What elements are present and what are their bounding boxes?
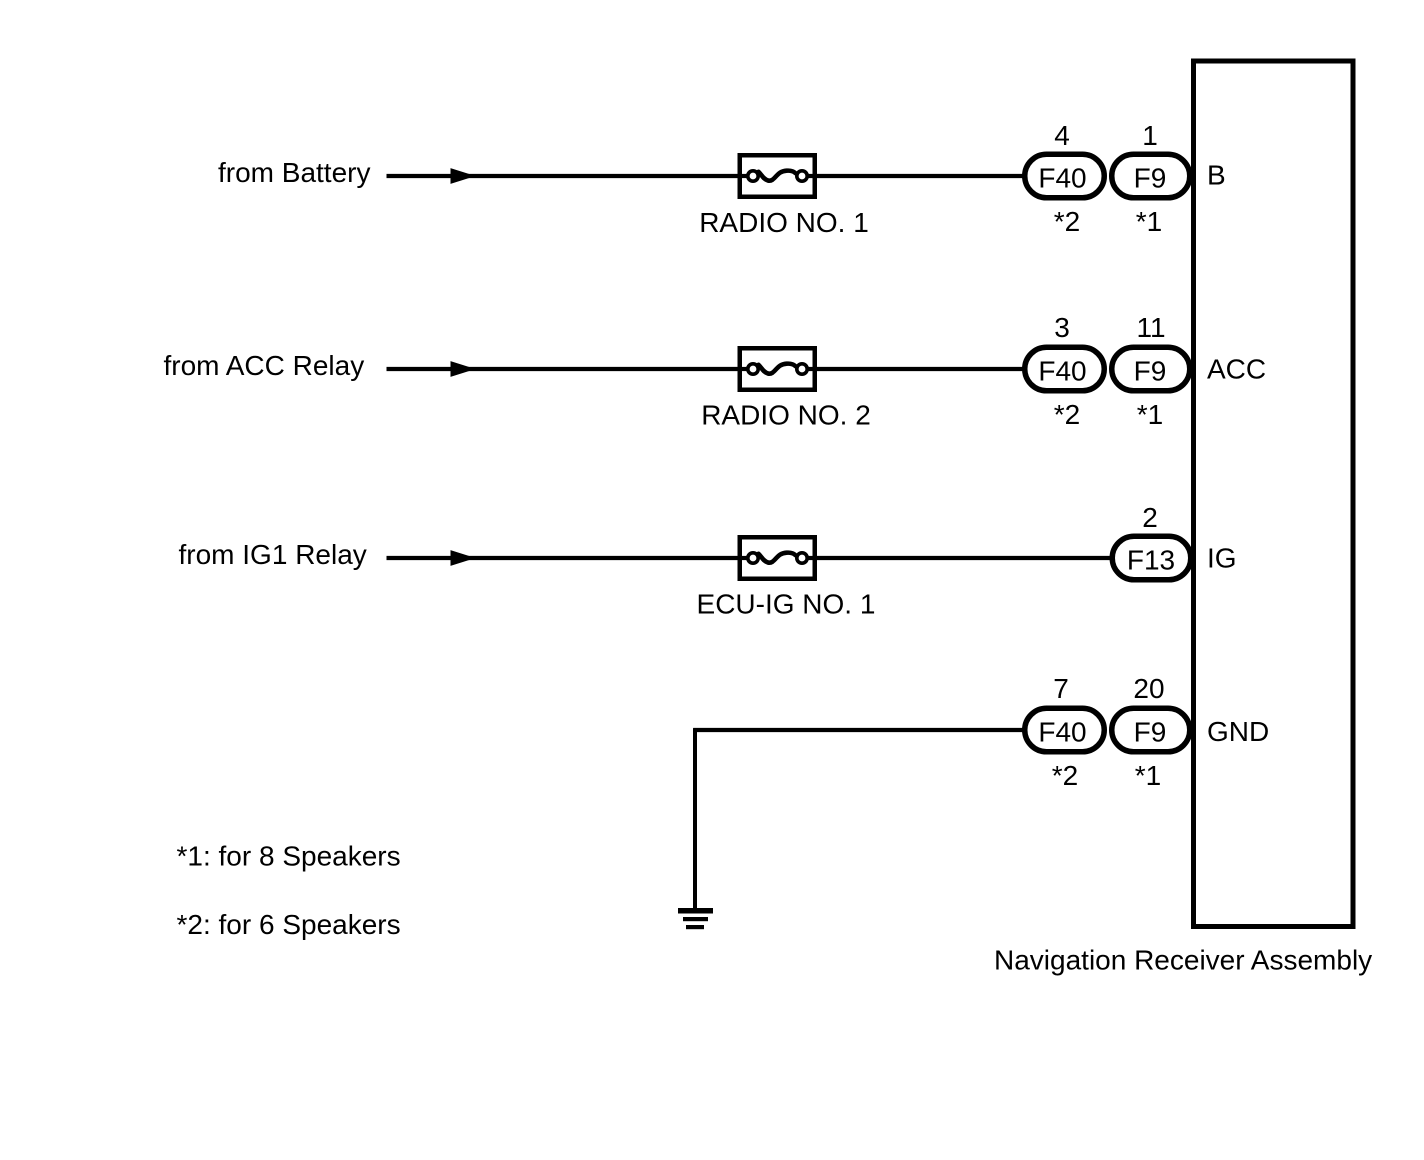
svg-text:F40: F40 [1038, 716, 1086, 747]
fuse ECU-IG NO. 1 [740, 537, 815, 579]
connector box: Navigation Receiver Assembly [1194, 61, 1354, 927]
connector pin F40 (row ACC) [1025, 347, 1105, 391]
svg-text:1: 1 [1142, 120, 1158, 151]
svg-text:11: 11 [1136, 312, 1165, 343]
svg-text:RADIO NO. 1: RADIO NO. 1 [699, 207, 869, 238]
svg-text:F9: F9 [1134, 162, 1167, 193]
svg-text:F13: F13 [1127, 544, 1175, 575]
svg-text:*1: *1 [1136, 206, 1162, 237]
svg-text:F40: F40 [1038, 355, 1086, 386]
connector pin F13 (row IG) [1112, 536, 1191, 580]
svg-text:4: 4 [1054, 120, 1070, 151]
arrowhead: IG1 feed [451, 550, 476, 566]
svg-text:*2: for 6 Speakers: *2: for 6 Speakers [177, 909, 401, 940]
fuse RADIO NO. 1 [740, 155, 815, 197]
connector pin F9 (row B) [1112, 154, 1190, 198]
svg-text:7: 7 [1053, 673, 1069, 704]
svg-text:RADIO NO. 2: RADIO NO. 2 [701, 400, 871, 431]
arrowhead: ACC feed [451, 361, 476, 377]
svg-text:from Battery: from Battery [218, 157, 370, 188]
connector pin F40 (row B) [1025, 154, 1105, 198]
svg-text:F9: F9 [1134, 355, 1167, 386]
svg-text:Navigation Receiver Assembly: Navigation Receiver Assembly [994, 945, 1372, 976]
wire: fuse ECU-IG NO. 1 to connector F13 [804, 556, 1112, 560]
ground symbol [678, 908, 713, 929]
wire: ground riser (vertical) [693, 728, 697, 908]
fuse RADIO NO. 2 [740, 348, 815, 390]
arrowhead: battery feed [451, 168, 476, 184]
connector pin F9 (row GND) [1112, 708, 1190, 752]
svg-text:from ACC Relay: from ACC Relay [164, 350, 365, 381]
svg-text:3: 3 [1054, 312, 1070, 343]
svg-text:ACC: ACC [1207, 354, 1266, 385]
svg-text:*2: *2 [1054, 399, 1080, 430]
wire: IG1 feed to fuse [387, 556, 751, 560]
svg-text:B: B [1207, 160, 1226, 191]
svg-text:*2: *2 [1054, 206, 1080, 237]
wire: fuse RADIO NO. 2 to connector F40 [804, 367, 1024, 371]
svg-text:F9: F9 [1134, 716, 1167, 747]
svg-text:20: 20 [1133, 673, 1164, 704]
wire: ACC feed to fuse [387, 367, 751, 371]
wire: ground run to connector F40 [693, 728, 1024, 732]
svg-text:F40: F40 [1038, 162, 1086, 193]
connector pin F9 (row ACC) [1112, 347, 1190, 391]
svg-text:*1: *1 [1137, 399, 1163, 430]
wire: fuse RADIO NO. 1 to connector F40 [804, 174, 1024, 178]
svg-text:from IG1 Relay: from IG1 Relay [179, 539, 367, 570]
svg-text:2: 2 [1142, 502, 1158, 533]
wire: battery feed to fuse [387, 174, 751, 178]
svg-text:ECU-IG NO. 1: ECU-IG NO. 1 [697, 589, 876, 620]
svg-text:IG: IG [1207, 543, 1237, 574]
svg-text:*1: for 8 Speakers: *1: for 8 Speakers [177, 841, 401, 872]
svg-text:*1: *1 [1135, 760, 1161, 791]
svg-text:GND: GND [1207, 716, 1269, 747]
svg-text:*2: *2 [1052, 760, 1078, 791]
connector pin F40 (row GND) [1025, 708, 1105, 752]
